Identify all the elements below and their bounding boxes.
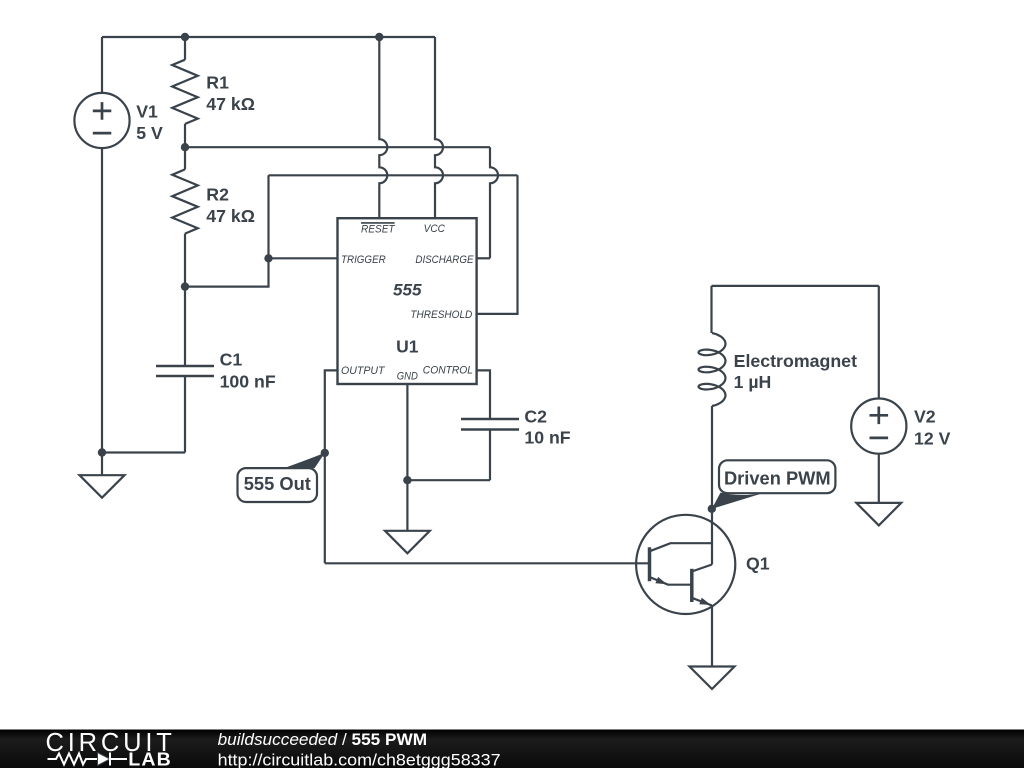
ground V1 <box>80 453 125 498</box>
wire <box>477 257 490 259</box>
node junction output flag <box>321 449 329 457</box>
wire base <box>325 562 650 564</box>
wire reset with hops <box>379 37 387 218</box>
node junction collector <box>708 505 716 513</box>
ground V2 <box>856 503 901 526</box>
svg-text:12 V: 12 V <box>914 428 951 448</box>
svg-text:10 nF: 10 nF <box>524 428 570 448</box>
label R1 47 kOhm <box>206 72 255 113</box>
svg-text:Driven PWM: Driven PWM <box>724 467 831 488</box>
wire <box>102 451 185 453</box>
capacitor C2 <box>407 419 519 480</box>
svg-text:1 µH: 1 µH <box>734 372 772 392</box>
svg-text:C2: C2 <box>524 406 547 426</box>
pin label RESET <box>361 223 396 235</box>
inductor Electromagnet <box>699 333 726 406</box>
label Electromagnet 1 uH <box>734 351 857 392</box>
svg-text:47 kΩ: 47 kΩ <box>206 206 255 226</box>
svg-text:R2: R2 <box>206 185 229 205</box>
wire with hop <box>490 147 498 258</box>
svg-text:C1: C1 <box>220 349 243 369</box>
ground U1 <box>385 531 430 554</box>
label R2 47 kOhm <box>206 185 255 226</box>
wire control <box>477 370 490 419</box>
wire <box>269 174 518 176</box>
svg-text:Q1: Q1 <box>746 554 770 574</box>
capacitor C1 <box>156 287 214 453</box>
svg-text:CONTROL: CONTROL <box>423 365 473 377</box>
svg-text:U1: U1 <box>396 336 419 356</box>
svg-text:buildsucceeded / 555 PWM: buildsucceeded / 555 PWM <box>218 730 428 749</box>
logo resistor-diode squiggle <box>48 753 128 766</box>
wire <box>878 454 880 503</box>
svg-text:R1: R1 <box>206 72 229 92</box>
wire output <box>325 370 338 563</box>
node junction top-RESET <box>375 33 383 41</box>
svg-text:555: 555 <box>393 280 422 299</box>
svg-text:100 nF: 100 nF <box>220 371 276 391</box>
wire <box>185 146 490 148</box>
node junction V1-gnd <box>98 448 106 456</box>
op-amp/timer U1 555 box <box>338 218 477 384</box>
wire <box>878 286 880 399</box>
svg-text:LAB: LAB <box>128 750 172 768</box>
node junction top-R1 <box>181 33 189 41</box>
node junction gnd-C2 <box>403 476 411 484</box>
wire emitter <box>711 606 713 667</box>
wire <box>711 406 713 509</box>
flag Driven PWM <box>712 460 836 509</box>
wire vcc with hops <box>435 37 443 218</box>
svg-text:Electromagnet: Electromagnet <box>734 351 857 371</box>
ground Q1 <box>690 667 735 690</box>
svg-text:THRESHOLD: THRESHOLD <box>410 309 472 321</box>
transistor Q1 <box>636 509 735 614</box>
svg-text:TRIGGER: TRIGGER <box>341 254 386 266</box>
svg-text:DISCHARGE: DISCHARGE <box>415 254 473 266</box>
wire <box>710 286 712 333</box>
wire <box>101 37 103 93</box>
svg-text:http://circuitlab.com/ch8etggg: http://circuitlab.com/ch8etggg58337 <box>218 750 501 768</box>
voltage source V2 <box>851 399 906 454</box>
svg-text:47 kΩ: 47 kΩ <box>206 94 255 114</box>
resistor R1 <box>172 37 198 147</box>
wire <box>185 175 269 286</box>
wire <box>101 148 103 452</box>
svg-text:V2: V2 <box>914 407 936 427</box>
wire gnd pin <box>406 384 408 531</box>
flag 555 Out <box>238 453 325 502</box>
svg-text:5 V: 5 V <box>136 123 163 143</box>
svg-text:GND: GND <box>397 371 418 383</box>
resistor R2 <box>172 147 198 286</box>
svg-text:OUTPUT: OUTPUT <box>341 365 386 377</box>
wire <box>712 285 879 287</box>
svg-text:V1: V1 <box>136 102 158 122</box>
svg-text:RESET: RESET <box>361 223 395 235</box>
node junction trigger <box>264 254 272 262</box>
wire trigger <box>269 257 338 259</box>
wire threshold <box>477 175 518 314</box>
wire <box>102 36 435 38</box>
node junction R1-R2 <box>181 143 189 151</box>
voltage source V1 <box>74 93 129 148</box>
label V2 12 V <box>914 407 951 449</box>
svg-text:555 Out: 555 Out <box>244 473 311 494</box>
footer bar <box>0 730 1024 768</box>
label C1 100 nF <box>220 349 276 391</box>
svg-text:VCC: VCC <box>424 223 446 235</box>
label C2 10 nF <box>524 406 570 447</box>
label V1 5 V <box>136 102 163 144</box>
node junction R2-C1 <box>181 282 189 290</box>
